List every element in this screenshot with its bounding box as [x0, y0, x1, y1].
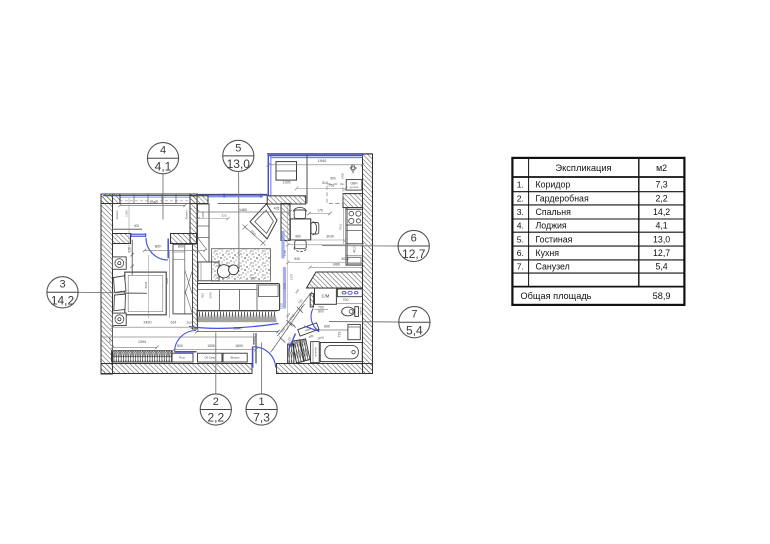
leader room 6: [322, 245, 398, 247]
table header line: [512, 176, 684, 178]
svg-text:770: 770: [350, 164, 354, 169]
svg-text:620: 620: [127, 247, 131, 253]
chair top: [294, 207, 307, 218]
kitchen top cabinet: [276, 162, 297, 185]
svg-text:1782: 1782: [208, 292, 212, 299]
chair bottom: [294, 240, 307, 251]
svg-text:1394: 1394: [138, 340, 146, 344]
corridor closet hatched boxes: [292, 339, 310, 363]
svg-text:1995: 1995: [165, 277, 169, 284]
table column lines: [529, 158, 639, 287]
svg-text:2.: 2.: [517, 193, 524, 203]
svg-text:1.: 1.: [517, 180, 524, 190]
svg-text:1488: 1488: [332, 262, 340, 266]
svg-text:5.: 5.: [517, 234, 524, 244]
door wardrobe room: [175, 331, 197, 352]
wall top band right piece: [267, 196, 306, 204]
dim 750 bath: [337, 298, 362, 303]
plant: [350, 165, 357, 174]
table header text: [555, 163, 667, 173]
svg-text:3030: 3030: [326, 235, 334, 239]
svg-text:5,4: 5,4: [406, 323, 423, 337]
dim row 500 1505 1600: [172, 344, 257, 352]
svg-text:5945: 5945: [144, 281, 148, 288]
wardrobe box 3: [223, 353, 247, 362]
svg-text:12,7: 12,7: [653, 248, 670, 258]
wall loggia/bedroom right piece: [171, 234, 197, 244]
table total line: [512, 286, 684, 288]
leader room 7: [329, 321, 399, 324]
corridor closet rotated label box: [298, 323, 319, 336]
svg-text:Гардеробная: Гардеробная: [536, 193, 589, 203]
svg-text:750: 750: [329, 184, 335, 188]
svg-text:325: 325: [221, 213, 226, 217]
armchair dim 950: [243, 225, 266, 246]
svg-text:7511: 7511: [339, 223, 343, 230]
nightstand bottom: [112, 313, 126, 325]
svg-text:Спальня: Спальня: [536, 207, 572, 217]
svg-text:Кухня: Кухня: [536, 248, 560, 258]
table row 6: [517, 248, 671, 258]
dim bedroom bottom row2: [108, 320, 159, 352]
leader room 5: [238, 172, 240, 269]
svg-text:729: 729: [338, 332, 342, 338]
room label 6: [398, 230, 429, 261]
svg-text:400: 400: [134, 224, 140, 228]
svg-text:940: 940: [294, 257, 300, 261]
dim kitchen lower rows: [286, 257, 364, 269]
towel cabinet: [311, 342, 320, 363]
svg-text:Экспликация: Экспликация: [555, 163, 611, 173]
svg-text:800: 800: [155, 245, 161, 249]
svg-text:1505: 1505: [207, 344, 215, 348]
wall living/bedroom vertical: [190, 194, 198, 329]
window loggia/bedroom: [113, 229, 146, 237]
room label 5: [223, 140, 254, 171]
wall top band middle piece: [190, 196, 208, 204]
svg-text:4: 4: [160, 145, 166, 157]
dashed future box: [327, 184, 343, 203]
appliance OVCH: [346, 180, 362, 191]
leader room 2: [215, 333, 217, 394]
svg-text:4445: 4445: [201, 211, 205, 218]
svg-text:4/10: 4/10: [353, 246, 357, 253]
room label 3: [47, 277, 78, 308]
stove: [346, 209, 363, 225]
svg-text:1750: 1750: [283, 249, 287, 256]
svg-text:Remont: Remont: [115, 210, 119, 219]
svg-text:500: 500: [177, 344, 183, 348]
dim kitchen vertical 7511: [283, 204, 344, 343]
svg-text:2840: 2840: [234, 326, 242, 330]
svg-text:614: 614: [171, 320, 177, 324]
svg-text:13,0: 13,0: [227, 157, 251, 171]
dim loggia side texts: [115, 210, 189, 228]
svg-text:7.: 7.: [517, 262, 524, 272]
counter dividers: [346, 231, 363, 264]
wall kitchen/bath: [307, 272, 363, 288]
leader room 1: [261, 343, 263, 394]
table row 5: [517, 234, 671, 244]
living/corridor blue curve: [189, 324, 279, 329]
svg-text:2,2: 2,2: [207, 411, 224, 425]
svg-text:12,7: 12,7: [402, 247, 426, 261]
svg-text:духовка: духовка: [350, 186, 359, 189]
wardrobe box 1: [172, 353, 193, 362]
dim loggia 1540: [118, 198, 186, 250]
svg-text:1541: 1541: [283, 282, 287, 289]
dim corridor diagonal A: [270, 304, 304, 352]
kitchen counter: [346, 208, 363, 266]
tv stand: [198, 262, 219, 281]
svg-text:1375: 1375: [290, 273, 294, 280]
svg-text:175: 175: [317, 208, 323, 212]
wardrobe hanging band: [112, 351, 172, 362]
window kitchen top (blue outline): [267, 154, 373, 196]
washing machine: [315, 288, 337, 304]
svg-text:Санузел: Санузел: [536, 262, 570, 272]
svg-text:960: 960: [295, 235, 301, 239]
leader room 4: [162, 174, 164, 220]
svg-text:ОВЧ: ОВЧ: [350, 181, 357, 185]
wall left outer: [101, 194, 113, 374]
svg-text:1345: 1345: [124, 210, 128, 217]
svg-text:3.: 3.: [517, 207, 524, 217]
svg-text:6: 6: [411, 232, 417, 244]
svg-text:200: 200: [186, 320, 191, 324]
dim bedroom 800 row: [143, 245, 207, 252]
wall kitchen top stub: [343, 194, 363, 208]
wall top-left corner block: [101, 194, 120, 204]
svg-text:7: 7: [411, 309, 417, 321]
svg-text:845: 845: [108, 337, 112, 342]
glazing band lower: [283, 267, 286, 309]
bedroom closet: [173, 244, 193, 314]
dim 866 bath: [318, 325, 360, 331]
entrance door: [253, 346, 276, 367]
pillows: [114, 276, 127, 311]
table row 4: [517, 221, 668, 231]
svg-text:1460: 1460: [239, 208, 247, 212]
bed: [125, 272, 166, 315]
table row 2: [517, 193, 668, 203]
svg-text:1540: 1540: [149, 201, 157, 205]
svg-text:150: 150: [250, 277, 256, 281]
svg-text:полотен: полотен: [315, 347, 318, 357]
svg-text:Лоджия: Лоджия: [536, 221, 567, 231]
svg-text:800: 800: [178, 245, 184, 249]
dim 2840: [195, 326, 279, 344]
dim kitchen mid rows: [286, 235, 364, 247]
chair right: [311, 222, 319, 235]
svg-text:м2: м2: [656, 163, 667, 173]
nightstand top: [112, 257, 126, 269]
table row 7: [517, 262, 668, 272]
svg-text:435: 435: [274, 207, 280, 211]
dining table: [290, 219, 310, 240]
wall column living/kitchen: [281, 204, 290, 241]
dim 620 vertical: [127, 240, 134, 275]
dim living top 1460/435: [196, 207, 292, 221]
partition line x307: [306, 155, 308, 204]
svg-text:7,3: 7,3: [253, 411, 270, 425]
svg-text:2,2: 2,2: [655, 193, 667, 203]
svg-text:1305: 1305: [252, 337, 256, 344]
svg-text:унитаз: унитаз: [360, 306, 363, 315]
svg-text:14,2: 14,2: [653, 207, 670, 217]
window living top: [197, 194, 267, 204]
svg-text:58,9: 58,9: [653, 291, 671, 301]
table outer border: [512, 158, 684, 305]
door leaf corridor: [289, 334, 296, 351]
wardrobe box 2: [198, 353, 223, 362]
entrance opening caps: [252, 364, 277, 374]
svg-text:2: 2: [213, 396, 219, 408]
svg-text:5: 5: [235, 142, 241, 154]
living wardrobe column: [198, 204, 210, 262]
svg-text:6.: 6.: [517, 248, 524, 258]
svg-text:1600: 1600: [235, 344, 243, 348]
room label 4: [147, 143, 178, 174]
dim bedroom closet vertical: [165, 250, 170, 318]
svg-text:1: 1: [259, 396, 265, 408]
table row 1: [517, 180, 668, 190]
svg-text:4,1: 4,1: [155, 159, 172, 173]
bath sink counter: [337, 289, 362, 297]
wardrobe shelf line: [112, 351, 172, 362]
bathtub: [320, 343, 362, 362]
bath texts 790 800: [315, 306, 329, 314]
svg-text:Пыл.: Пыл.: [179, 356, 186, 360]
table row 3: [517, 207, 671, 217]
svg-text:2420: 2420: [144, 320, 152, 324]
svg-text:4.: 4.: [517, 221, 524, 231]
curtain band under sofa: [196, 311, 276, 322]
room label 1: [246, 394, 277, 425]
bath door jamb stub: [310, 294, 313, 307]
svg-text:3030: 3030: [341, 257, 349, 261]
svg-text:С/М: С/М: [322, 294, 330, 299]
svg-text:1450: 1450: [341, 172, 345, 179]
partition bedroom/wardrobe thin: [101, 336, 256, 338]
bath cabinet: [338, 324, 361, 339]
svg-text:500: 500: [330, 176, 336, 180]
svg-text:14,2: 14,2: [51, 294, 75, 308]
wall right outer: [363, 154, 373, 374]
window loggia top: [101, 194, 197, 204]
svg-text:1325: 1325: [280, 302, 284, 309]
svg-text:3: 3: [59, 279, 65, 291]
table total row: [521, 291, 671, 301]
glazing band upper: [281, 231, 284, 259]
dim bedroom bottom row1: [111, 320, 194, 329]
wall bottom left: [101, 364, 252, 374]
coffee table: [217, 265, 255, 281]
dim corridor texts: [280, 288, 325, 340]
svg-text:1940: 1940: [318, 159, 326, 163]
svg-text:1325: 1325: [288, 336, 292, 343]
partition corridor/wardrobe vertical: [254, 333, 256, 364]
dim sofa rotated: [200, 292, 212, 299]
svg-text:Remont: Remont: [185, 210, 189, 219]
carpet: [212, 249, 271, 281]
svg-text:510: 510: [322, 181, 328, 185]
svg-text:Об.Секц: Об.Секц: [204, 356, 215, 360]
room label 2: [200, 394, 231, 425]
dim kitchen top 1940: [267, 159, 365, 167]
wall loggia/bedroom left piece: [113, 234, 131, 244]
door loggia-bedroom: [146, 238, 168, 260]
svg-text:Вешал: Вешал: [231, 356, 240, 360]
svg-text:13,0: 13,0: [653, 234, 670, 244]
svg-text:4,1: 4,1: [655, 221, 667, 231]
svg-text:750: 750: [343, 298, 349, 302]
svg-text:800: 800: [318, 310, 324, 314]
svg-text:1395: 1395: [283, 181, 291, 185]
svg-text:901: 901: [200, 293, 204, 298]
svg-text:5,4: 5,4: [655, 262, 667, 272]
door bathroom: [304, 309, 319, 332]
dim bedroom vert 5945: [144, 255, 149, 318]
armchair: [250, 204, 277, 239]
dim corridor diagonal B: [277, 292, 312, 336]
leader room 3: [78, 291, 147, 294]
sofa: [198, 284, 280, 311]
svg-text:Общая площадь: Общая площадь: [521, 291, 592, 301]
svg-text:Коридор: Коридор: [536, 180, 571, 190]
svg-text:7,3: 7,3: [655, 180, 667, 190]
toilet: [342, 306, 363, 316]
wall bottom right: [277, 364, 373, 374]
svg-text:866: 866: [324, 325, 330, 329]
room label 7: [399, 307, 430, 338]
dim kitchen top 510/750: [295, 164, 355, 191]
dim 175 kitchen chairs: [307, 208, 331, 215]
table row lines: [512, 192, 684, 273]
svg-text:Гостиная: Гостиная: [536, 234, 573, 244]
corridor closet hanger box: [288, 344, 294, 364]
